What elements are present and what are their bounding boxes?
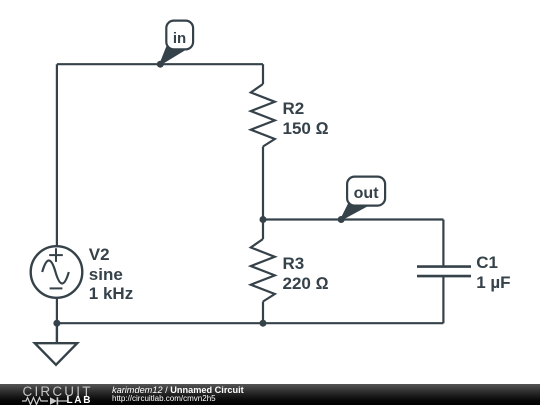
node in junction dot [157, 61, 164, 68]
footer url [112, 395, 216, 403]
svg-text:R3: R3 [283, 254, 305, 273]
CircuitLab logo wordmark LAB [67, 396, 93, 405]
wire R2 top stub [262, 64, 264, 84]
svg-text:220 Ω: 220 Ω [283, 274, 329, 293]
node label in balloon [166, 21, 193, 50]
node label in balloon tail [160, 48, 182, 65]
node out junction dot [338, 216, 345, 223]
wire V2 bottom to ground net [56, 298, 58, 324]
wire R3 bottom stub [262, 302, 264, 324]
svg-text:R2: R2 [283, 99, 305, 118]
resistor R3 zigzag [251, 239, 275, 302]
wire C1 bottom stub [442, 276, 444, 323]
footer bar [0, 384, 540, 405]
CircuitLab logo wordmark CIRCUIT [23, 385, 93, 399]
capacitor C1 plates [417, 267, 471, 277]
svg-text:out: out [354, 185, 380, 202]
svg-text:sine: sine [89, 265, 123, 284]
svg-text:1 µF: 1 µF [476, 273, 510, 292]
junction dot R2/R3/out wire [260, 216, 267, 223]
svg-text:C1: C1 [476, 253, 498, 272]
wire R2 bottom stub to out net [262, 147, 264, 220]
ground symbol [35, 323, 77, 365]
voltage source V2 circle [31, 246, 83, 298]
svg-text:V2: V2 [89, 245, 110, 264]
wire C1 top stub [442, 220, 444, 267]
svg-text:1 kHz: 1 kHz [89, 284, 133, 303]
wire middle horizontal (out net) [263, 218, 443, 220]
footer credit line [112, 386, 244, 395]
wire R3 top stub [262, 220, 264, 240]
junction dot R3 bottom [260, 320, 267, 327]
node label out balloon [347, 177, 385, 206]
node label out balloon tail [341, 204, 366, 220]
wire left vertical from top wire to V2 [56, 64, 58, 246]
CircuitLab logo squiggle (resistor and diode) [22, 396, 68, 405]
svg-text:150 Ω: 150 Ω [283, 119, 329, 138]
svg-text:in: in [173, 30, 186, 47]
resistor R2 zigzag [251, 84, 275, 147]
wire bottom horizontal (ground net) [57, 322, 444, 324]
V2 minus sign [50, 287, 63, 289]
V2 sine wave [42, 261, 69, 284]
wire top horizontal (in net) [57, 63, 263, 65]
junction dot V2/ground [53, 320, 60, 327]
V2 plus sign [49, 248, 63, 262]
